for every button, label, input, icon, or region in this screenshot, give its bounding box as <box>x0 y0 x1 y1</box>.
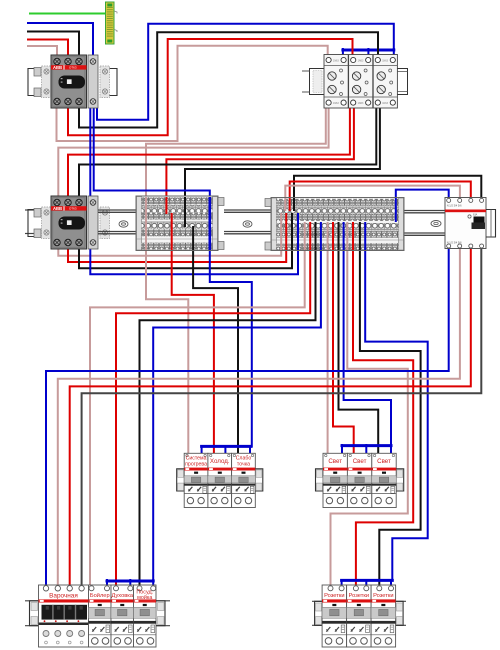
bracket left of breaker group1 <box>177 469 185 491</box>
wire blue block X2 to N bus light group <box>344 250 391 446</box>
DIN clips right of X1 <box>218 198 224 250</box>
wire black block X1 to breaker lowcurrent <box>193 250 238 454</box>
svg-text:1N63: 1N63 <box>358 59 364 62</box>
bracket right of sockets group <box>396 601 404 625</box>
wire blue N bus breaker group1 <box>202 445 251 448</box>
wire black terminal block X2 to RCD <box>294 176 481 198</box>
breaker dishwasher "Посуд. мойка" <box>134 585 157 647</box>
wire blue N bus sockets group <box>342 579 393 582</box>
svg-text:Слабо: Слабо <box>236 455 252 461</box>
bracket left of cooker breaker <box>30 601 39 626</box>
svg-text:N 1/2 3/4 5/6: N 1/2 3/4 5/6 <box>447 203 462 207</box>
wire blue N feed to switch Q1 <box>28 23 93 57</box>
wire red RCD out to cooker breaker <box>70 247 471 588</box>
svg-text:63A: 63A <box>473 214 478 217</box>
wire black out of block X1 bottom <box>192 226 194 250</box>
svg-text:1N63: 1N63 <box>382 59 388 62</box>
breaker group2 module light2 "Свет" <box>347 453 371 507</box>
wire black switch Q1 out to F1 module3 <box>79 32 378 127</box>
wire pink block X2 to breaker boiler <box>90 250 305 585</box>
DIN rail slot oval left of X1 <box>119 221 128 227</box>
bracket right of bottom-left group <box>156 601 165 626</box>
Q2 red band with ABB logo <box>51 206 87 210</box>
breaker oven "Духовка" <box>111 585 134 647</box>
wire black drop3 through block X2 <box>359 222 361 250</box>
bracket right of breaker group1 <box>255 469 262 491</box>
wire blue RCD out to cooker breaker <box>46 247 449 588</box>
fuse module F1-3 <box>373 55 397 109</box>
wire pink drop3 through block X2 <box>346 222 348 250</box>
wire black block X2 to breaker light3 <box>339 250 379 454</box>
DIN clip left Q2 <box>28 210 41 237</box>
breaker group1 module fridge "Холод." <box>208 453 232 507</box>
wire green PE feed to earth strip <box>30 13 106 15</box>
switch Q2 body <box>51 196 87 249</box>
svg-text:N 1/2 3/4 5/6: N 1/2 3/4 5/6 <box>447 241 462 245</box>
wire red block X1 to breaker fridge <box>172 250 214 454</box>
svg-text:Розетки: Розетки <box>349 593 369 599</box>
svg-text:ABB: ABB <box>53 206 62 211</box>
wire red switch Q2 out to terminal block X2 <box>68 249 286 262</box>
svg-text:Свет: Свет <box>353 458 367 465</box>
wire pink RCD link through block X2 top <box>284 198 286 211</box>
svg-text:Холод.: Холод. <box>210 458 230 465</box>
wire red F1 module2 out to switch Q2 <box>68 106 350 197</box>
wire red block X2 to breaker oven <box>116 250 310 585</box>
wire blue through block X1 <box>209 197 212 250</box>
fuse block F1 bracket left <box>302 69 324 95</box>
wire red L2 feed to switch Q1 <box>28 40 68 58</box>
wire blue switch Q1 to terminal block X1 <box>94 107 210 197</box>
wire pink switch Q2 out to terminal block X2 <box>58 249 281 256</box>
wire black L3 feed to switch Q1 <box>28 32 79 58</box>
bracket left of sockets group <box>315 601 323 625</box>
wire blue bus drop oven <box>129 580 131 585</box>
svg-text:1N63: 1N63 <box>358 102 364 105</box>
wire blue switch Q2 out to terminal block X2 <box>90 248 298 274</box>
breaker group1 module low-current "Слабо точка" <box>232 453 256 507</box>
Q2 top terminals <box>54 199 60 205</box>
bracket right of breaker group2 <box>396 469 404 491</box>
wire pink F1 module1 out to terminal block X1 <box>146 106 326 197</box>
breaker group2 module light3 "Свет" <box>372 453 396 507</box>
wire pink block X1 to breaker heating <box>146 250 188 454</box>
svg-text:Свет: Свет <box>377 458 391 465</box>
wire black F1 module3 out to terminal block X1 <box>185 106 380 197</box>
wire red F1 module2 out to terminal block X1 <box>166 106 354 197</box>
svg-text:Система: Система <box>186 455 207 461</box>
fuse module F1-1 <box>324 55 348 109</box>
wire black block X2 to breaker dishwasher <box>140 250 316 585</box>
wire black RCD link through block X2 top <box>293 198 295 211</box>
wire pink block X2 to breaker sockets1 <box>331 250 408 587</box>
side tab left Q2 <box>42 207 52 239</box>
wire black switch Q2 out to terminal block X2 <box>79 249 292 268</box>
breaker boiler "Бойлер" <box>89 585 112 647</box>
wire blue drop3 through block X2 <box>364 222 366 250</box>
wire pink through block X1 <box>145 197 147 250</box>
wire red out of block X1 bottom <box>171 213 173 250</box>
wire pink RCD out to cooker breaker <box>58 247 460 588</box>
wire blue bus drop sockets2 <box>365 580 367 587</box>
svg-text:Духовка: Духовка <box>111 593 133 599</box>
switch Q1 body <box>51 55 87 108</box>
wire blue bus drop group1 module1 <box>201 446 203 454</box>
wire black F1 module3 out to switch Q2 <box>79 106 376 197</box>
wire blue bus drop group1 module2 <box>224 446 226 454</box>
DIN rail slot oval between X1 and X2 <box>243 221 252 227</box>
Q2 bottom terminals <box>54 239 60 245</box>
Q1 red band with ABB logo <box>51 65 87 69</box>
wire red drop2 through block X2 <box>332 222 334 250</box>
wire blue switch Q1 to switch Q2 <box>89 107 91 198</box>
wire blue bus drop group1 module3 <box>249 446 251 454</box>
side tab left Q1 <box>42 66 52 98</box>
wire pink switch feed into block X2 bottom <box>280 213 282 250</box>
wire blue bus drop sockets1 <box>341 580 343 587</box>
Q2 rotary handle <box>59 217 86 230</box>
wire blue RCD link through block X2 top <box>395 198 397 222</box>
wire pink drop2 through block X2 <box>327 222 329 250</box>
breaker sockets2 "Розетки" <box>347 585 372 647</box>
wire blue bus drop dishwasher <box>152 580 154 585</box>
wire black drop1 through block X2 <box>315 222 317 250</box>
wire black drop2 through block X2 <box>338 222 340 250</box>
earth terminal strip PE <box>106 2 118 44</box>
DIN rail stub left of switch Q2 <box>25 210 34 234</box>
DIN clip right of RCD <box>486 210 496 238</box>
wire pink L1 feed to switch Q1 <box>28 46 57 57</box>
Q2 N-pole module <box>88 196 98 249</box>
wire blue block X2 to N bus bottom-left group <box>153 250 321 581</box>
bracket left of breaker group2 <box>316 469 324 491</box>
breaker group2 module light1 "Свет" <box>323 453 347 507</box>
wire blue block X1 to breaker group1 N bus <box>210 250 252 446</box>
wire blue bus drop light3 <box>390 445 392 454</box>
DIN clip right Q1 <box>110 69 118 96</box>
wire blue bus on fuse block F1 top <box>343 49 394 52</box>
breaker sockets1 "Розетки" <box>322 585 347 647</box>
WIRES-OVER-BLOCKS-LAYER (segments visible across terminal blocks) <box>146 197 396 250</box>
DIN clips left of X2 <box>265 199 271 251</box>
switch Q2 ABB OT63 <box>28 196 110 249</box>
svg-text:Бойлер: Бойлер <box>90 592 110 599</box>
DIN rail between X1 and X2 <box>224 210 271 234</box>
wire red RCD link through block X2 top <box>289 198 291 211</box>
wire blue switch Q1 out to fuse block F1 bus <box>97 24 394 120</box>
wire red drop3 through block X2 <box>352 222 354 250</box>
DIN rail bottom-left group <box>25 601 170 626</box>
svg-text:Свет: Свет <box>328 458 342 465</box>
wire blue drop2 through block X2 <box>343 222 345 250</box>
DIN rail between X2 and RCD <box>404 211 445 236</box>
wire red into block X1 top <box>165 197 167 214</box>
wire blue drop1 through block X2 <box>320 222 322 250</box>
breaker sockets3 "Розетки" <box>371 585 396 647</box>
wire red switch Q1 out to F1 module2 <box>68 39 353 135</box>
wire red block X2 to breaker sockets2 <box>353 250 413 587</box>
wire red switch feed into block X2 bottom <box>285 213 287 250</box>
wire blue N bus bottom-left group <box>107 580 153 583</box>
DIN clip left Q1 <box>28 69 41 96</box>
wire pink drop1 through block X2 <box>304 222 306 250</box>
wire blue bus drop light2 <box>365 445 367 454</box>
Q1 top terminals <box>54 58 60 64</box>
side tab right Q2 <box>100 207 110 239</box>
wire black block X2 to breaker sockets3 <box>360 250 421 587</box>
breaker group1 module heating "Система прогрева" <box>184 453 208 507</box>
fuse block F1 bracket right <box>397 69 407 95</box>
Q1 bottom terminals <box>54 98 60 104</box>
terminal block X1 <box>136 196 218 251</box>
DIN rail slot oval left of RCD <box>431 221 441 227</box>
svg-text:Розетки: Розетки <box>373 593 393 599</box>
wire red block X2 to breaker light2 <box>333 250 354 454</box>
wire red terminal block X2 to RCD <box>290 182 471 199</box>
svg-text:прогрева: прогрева <box>185 462 207 468</box>
wire blue bus drop to F1 module2 <box>367 49 369 57</box>
wire blue terminal block X2 to RCD <box>396 190 449 198</box>
wire black into block X1 top <box>184 197 186 227</box>
wire blue bus drop boiler <box>106 580 108 585</box>
wire blue bus drop to F1 module3 <box>393 49 395 57</box>
fuse module F1-2 <box>349 55 373 109</box>
breaker cooker "Варочная" 4-pole <box>39 585 89 647</box>
svg-text:Варочная: Варочная <box>49 592 78 599</box>
side tab right Q1 <box>100 66 110 98</box>
svg-text:1N63: 1N63 <box>333 102 339 105</box>
Q1 rotary handle <box>59 76 86 89</box>
wire blue N bus light group <box>342 444 391 447</box>
wire pink terminal block X2 to RCD <box>285 186 460 198</box>
wire pink block X2 to breaker light1 <box>327 250 329 454</box>
DIN rail between Q2 and block X1 <box>98 210 136 234</box>
wire blue block X2 to N bus sockets group <box>365 250 428 580</box>
wire blue bus drop to F1 module1 <box>342 49 344 57</box>
svg-text:ABB: ABB <box>53 65 62 70</box>
wire pink switch Q1 out to F1 module1 <box>57 46 328 141</box>
Q1 N-pole module <box>88 55 98 108</box>
wire black switch feed into block X2 bottom <box>291 213 293 250</box>
wire blue bus drop sockets3 <box>390 580 392 587</box>
svg-text:OT63: OT63 <box>69 66 77 70</box>
svg-text:Розетки: Розетки <box>324 593 344 599</box>
svg-text:1N63: 1N63 <box>333 59 339 62</box>
svg-text:OT63: OT63 <box>69 207 77 211</box>
DIN rail bottom-right group <box>312 601 406 625</box>
wire red drop1 through block X2 <box>309 222 311 250</box>
wire blue bus drop light1 <box>341 445 343 454</box>
svg-text:1N63: 1N63 <box>382 102 388 105</box>
terminal block X2 <box>271 198 404 251</box>
svg-text:точка: точка <box>237 462 250 468</box>
wire dark-gray RCD out to cooker breaker <box>82 247 482 588</box>
wire blue switch feed into block X2 bottom <box>297 213 299 250</box>
wire pink F1 module1 out to switch Q2 <box>58 106 328 197</box>
switch Q1 ABB OT63 <box>28 55 117 108</box>
RCD FH204 <box>445 198 486 249</box>
